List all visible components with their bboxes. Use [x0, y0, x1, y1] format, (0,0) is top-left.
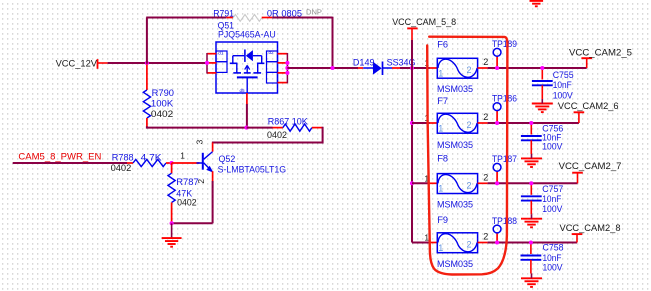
- fuse F7 left pin: [430, 122, 438, 124]
- wire top bypass left segment: [146, 17, 226, 19]
- node junction VCC_CAM_5_8 rail: [410, 66, 414, 70]
- Q51 gate pin stub: [246, 93, 248, 104]
- fuse F8 right pin: [478, 182, 488, 184]
- node junctions Q51 right: [285, 61, 289, 75]
- fuse F7 right pin: [478, 122, 488, 124]
- label TP188: [492, 216, 517, 226]
- value MSM035 of F6: [437, 84, 473, 94]
- pin name 2 inside F6: [467, 65, 472, 75]
- svg-text:2: 2: [467, 120, 472, 130]
- resistor R787 top pin: [171, 163, 173, 173]
- label TP186: [492, 93, 517, 103]
- resistor R867 right pin: [312, 127, 323, 129]
- svg-text:F7: F7: [437, 96, 448, 106]
- Q51 left pin stubs: [207, 54, 216, 73]
- pin name 1 inside F7: [438, 123, 443, 133]
- label TP187: [492, 154, 517, 164]
- svg-text:TP187: TP187: [492, 154, 517, 164]
- svg-text:0402: 0402: [151, 109, 173, 119]
- node junction bypass/output: [330, 66, 334, 70]
- net label VCC_CAM2_5: [569, 46, 632, 57]
- svg-text:1: 1: [180, 151, 185, 161]
- testpoint TP188 circle: [493, 225, 501, 233]
- testpoint TP189 circle: [493, 48, 501, 56]
- fuse F6 right pin: [478, 67, 488, 69]
- value 100V of C755: [553, 90, 574, 100]
- node junction TP187: [495, 181, 499, 185]
- footprint 0402 of R787: [177, 197, 197, 207]
- fuse F8 MSM035 body: [437, 174, 477, 194]
- capacitor C758 10nF: [521, 243, 542, 274]
- wire R867 to Q52 collector: [212, 127, 323, 143]
- power symbol VCC_12V: [98, 59, 108, 69]
- power symbol VCC_CAM2_8: [572, 234, 583, 242]
- wire D149 to fuse rail: [400, 67, 430, 69]
- wire R790 to gate node: [147, 126, 247, 127]
- value 10nF of C756: [542, 133, 561, 143]
- pin number 1 of F9: [424, 233, 429, 243]
- svg-text:d1: d1: [218, 50, 224, 55]
- svg-text:2: 2: [467, 65, 472, 75]
- node junction Q51 left: [205, 61, 209, 65]
- svg-text:0402: 0402: [177, 197, 197, 207]
- svg-text:3: 3: [195, 139, 205, 144]
- pin name 2 inside F9: [467, 240, 472, 250]
- Q51 right pin connector wire: [286, 53, 288, 83]
- wire base of Q52: [172, 162, 200, 164]
- svg-text:R787: R787: [176, 177, 198, 187]
- node junction C756: [529, 121, 533, 125]
- svg-text:MSM035: MSM035: [437, 140, 473, 150]
- svg-text:d5: d5: [240, 88, 246, 93]
- pin name 2 inside F8: [467, 181, 472, 191]
- value SS34G: [387, 57, 416, 67]
- wire Q51 gate down: [246, 104, 248, 128]
- svg-text:1: 1: [438, 68, 443, 78]
- wire emitter to ground node: [172, 222, 213, 224]
- svg-text:TP188: TP188: [492, 216, 517, 226]
- label R867 10K: [268, 116, 309, 126]
- value 0R 0805: [267, 8, 302, 18]
- svg-text:VCC_CAM2_7: VCC_CAM2_7: [559, 160, 622, 171]
- wire F7 output: [488, 122, 579, 124]
- transistor Q51 PJQ5465A-AU body: [216, 42, 278, 93]
- capacitor C757 10nF: [521, 183, 542, 214]
- power symbol VCC_CAM2_7: [572, 173, 583, 184]
- wire fuse feed rail vertical: [411, 40, 413, 243]
- node junction R787/emitter/ground: [170, 221, 174, 225]
- value S-LMBTA05LT1G: [218, 165, 287, 175]
- wire rail to fuse F8: [412, 182, 430, 184]
- Q52 collector pin stub: [212, 143, 214, 152]
- wire Q52 emitter down: [212, 181, 214, 223]
- resistor R790 top pin: [146, 65, 148, 91]
- wire rail to fuse F7: [412, 122, 430, 124]
- svg-text:MSM035: MSM035: [437, 259, 473, 269]
- pin number 1 of F6: [424, 58, 429, 68]
- svg-text:R790: R790: [152, 88, 174, 98]
- testpoint TP186 pin: [496, 111, 498, 123]
- testpoint TP187 circle: [493, 163, 501, 171]
- value 100K: [151, 99, 174, 109]
- svg-text:1: 1: [438, 243, 443, 253]
- capacitor C756 10nF: [521, 123, 542, 154]
- svg-text:1: 1: [438, 184, 443, 194]
- label Q51: [218, 20, 234, 30]
- label F9: [437, 215, 448, 225]
- svg-text:2: 2: [483, 57, 488, 67]
- svg-text:Q52: Q52: [219, 154, 236, 164]
- transistor Q52 S-LMBTA05LT1G body: [197, 152, 214, 173]
- fuse F9 MSM035 body: [437, 233, 477, 253]
- svg-text:VCC_CAM2_5: VCC_CAM2_5: [569, 46, 632, 57]
- wire CAM5_8_PWR_EN: [13, 162, 127, 164]
- svg-text:R791: R791: [213, 8, 234, 18]
- footprint 0402 of R788: [111, 163, 132, 173]
- value 4.7K: [141, 153, 163, 163]
- net label VCC_CAM2_6: [558, 100, 619, 111]
- svg-text:100V: 100V: [542, 204, 563, 214]
- svg-text:10nF: 10nF: [542, 194, 561, 204]
- pin name 1 inside F9: [438, 243, 443, 253]
- value MSM035 of F8: [437, 200, 473, 210]
- resistor R790 body: [143, 90, 150, 118]
- testpoint TP187 pin: [496, 171, 498, 183]
- svg-text:100K: 100K: [151, 99, 174, 109]
- value 10nF of C755: [553, 80, 572, 90]
- svg-text:CAM5_8_PWR_EN: CAM5_8_PWR_EN: [18, 151, 101, 162]
- testpoint TP186 circle: [493, 103, 501, 111]
- label C755: [553, 70, 574, 80]
- power symbol VCC_CAM2_5: [581, 58, 592, 68]
- resistor R788 right pin: [166, 162, 172, 164]
- capacitor C755 10nF: [532, 68, 553, 99]
- node junction C757: [529, 181, 533, 185]
- pin name 1 inside F6: [438, 68, 443, 78]
- svg-text:10nF: 10nF: [543, 253, 562, 263]
- resistor R867 body: [283, 124, 312, 131]
- resistor R788 body: [133, 159, 166, 166]
- svg-text:MSM035: MSM035: [437, 84, 473, 94]
- Q51 left pin connector wire: [206, 53, 208, 74]
- value PJQ5465A-AU: [218, 30, 276, 40]
- value 100V of C757: [542, 204, 563, 214]
- value 47K: [176, 188, 193, 198]
- ground symbol below C756: [521, 154, 542, 167]
- svg-text:C758: C758: [543, 243, 564, 253]
- svg-text:MSM035: MSM035: [437, 200, 473, 210]
- node junction rail row3: [410, 181, 414, 185]
- wire F8 output: [488, 182, 578, 184]
- svg-text:VCC_CAM_5_8: VCC_CAM_5_8: [392, 16, 456, 27]
- wire up-left vertical to R791 bypass: [146, 18, 148, 64]
- testpoint TP188 pin: [496, 233, 498, 243]
- pin number 2 of F7: [483, 112, 488, 122]
- wire rail to fuse F9: [412, 242, 430, 244]
- svg-text:TP186: TP186: [492, 93, 517, 103]
- Q51 right pin stubs: [278, 54, 288, 83]
- wire F6 output: [488, 67, 587, 69]
- label DNP: [306, 7, 322, 16]
- label R788: [112, 153, 134, 163]
- node junction C755: [540, 66, 544, 70]
- resistor R867 left pin: [273, 127, 283, 129]
- value 10nF of C758: [543, 253, 562, 263]
- svg-text:F8: F8: [437, 154, 448, 164]
- svg-text:VCC_12V: VCC_12V: [56, 57, 98, 68]
- svg-text:DNP: DNP: [306, 7, 322, 16]
- net label VCC_CAM2_7: [559, 160, 622, 171]
- power symbol VCC_CAM_5_8: [407, 28, 417, 40]
- pin number 3 of Q52 (rotated): [195, 139, 205, 144]
- node junction gate/R790/R867: [245, 126, 249, 130]
- ground symbol below C758: [521, 274, 542, 287]
- value MSM035 of F7: [437, 140, 473, 150]
- wire bypass down vertical: [332, 17, 334, 68]
- wire VCC_12V to Q51 left pins: [108, 62, 207, 64]
- resistor R791 body (DNP gray): [233, 15, 262, 22]
- node junction TP189: [495, 66, 499, 70]
- pin number 1 of Q52: [180, 151, 185, 161]
- svg-text:2: 2: [483, 232, 488, 242]
- label Q52: [219, 154, 236, 164]
- svg-text:100V: 100V: [543, 263, 564, 273]
- label C758: [543, 243, 564, 253]
- resistor R791 left pin: [226, 17, 233, 19]
- label R791: [213, 8, 234, 18]
- label F7: [437, 96, 448, 106]
- ground symbol below R787: [162, 223, 182, 246]
- svg-text:TP189: TP189: [492, 39, 517, 49]
- pin name 1 inside F8: [438, 184, 443, 194]
- node junction VCC_12V: [145, 61, 149, 65]
- svg-text:2: 2: [467, 181, 472, 191]
- pin number 2 of F8: [483, 173, 488, 183]
- svg-text:1: 1: [438, 123, 443, 133]
- testpoint TP189 pin: [496, 56, 498, 68]
- value 10nF of C757: [542, 194, 561, 204]
- svg-text:2: 2: [483, 173, 488, 183]
- fuse F7 MSM035 body: [437, 113, 477, 133]
- svg-text:d2: d2: [269, 50, 275, 55]
- node junction R788/R787/base: [170, 161, 174, 165]
- wire top bypass right segment: [272, 17, 332, 19]
- label R787: [176, 177, 198, 187]
- wire gate node to R867: [247, 127, 273, 129]
- net label VCC_12V: [56, 57, 98, 68]
- svg-text:C755: C755: [553, 70, 574, 80]
- net label CAM5_8_PWR_EN: [18, 151, 101, 162]
- value 100V of C758: [543, 263, 564, 273]
- svg-text:0402: 0402: [267, 130, 287, 140]
- resistor R787 bottom pin: [171, 203, 173, 224]
- value 100V of C756: [542, 142, 563, 152]
- resistor R787 body: [168, 173, 175, 202]
- node junction TP188: [495, 240, 499, 244]
- power symbol VCC_CAM2_6: [574, 112, 585, 123]
- value MSM035 of F9: [437, 259, 473, 269]
- ground symbol below C755: [532, 99, 553, 112]
- footprint 0402 of R867: [267, 130, 287, 140]
- svg-text:PJQ5465A-AU: PJQ5465A-AU: [218, 30, 276, 40]
- label F8: [437, 154, 448, 164]
- footprint 0402 of R790: [151, 109, 173, 119]
- net label VCC_CAM_5_8: [392, 16, 456, 27]
- svg-text:R788: R788: [112, 153, 134, 163]
- svg-text:F6: F6: [437, 39, 448, 49]
- pin number 1 of F8: [424, 174, 429, 184]
- resistor R791 right pin: [262, 17, 273, 19]
- label C757: [542, 184, 563, 194]
- diode D149 SS34G: [358, 62, 400, 76]
- label F6: [437, 39, 448, 49]
- pin number 1 of F7: [424, 113, 429, 123]
- pin number 2 of Q52 (rotated): [196, 179, 206, 184]
- fuse F9 left pin: [430, 242, 438, 244]
- net label VCC_CAM2_8: [560, 222, 621, 233]
- svg-text:D149: D149: [353, 57, 375, 67]
- ground symbol top edge (partial): [530, 1, 544, 6]
- node junction C758: [529, 240, 533, 244]
- svg-text:10nF: 10nF: [553, 80, 572, 90]
- wire F9 output: [488, 242, 577, 244]
- Q52 emitter pin stub: [212, 171, 214, 181]
- annotation red oval around fuses: [427, 37, 507, 275]
- svg-text:2: 2: [483, 112, 488, 122]
- resistor R790 bottom pin: [146, 118, 148, 127]
- fuse F8 left pin: [430, 182, 438, 184]
- svg-text:2: 2: [467, 240, 472, 250]
- node junction TP186: [495, 121, 499, 125]
- svg-text:F9: F9: [437, 215, 448, 225]
- node junction rail row2: [410, 121, 414, 125]
- pin number 2 of F6: [483, 57, 488, 67]
- svg-text:100V: 100V: [542, 142, 563, 152]
- svg-text:100V: 100V: [553, 90, 574, 100]
- wire Q51 output to D149: [287, 67, 358, 69]
- svg-text:VCC_CAM2_6: VCC_CAM2_6: [558, 100, 619, 111]
- svg-text:R867 10K: R867 10K: [268, 116, 309, 126]
- svg-text:S-LMBTA05LT1G: S-LMBTA05LT1G: [218, 165, 287, 175]
- fuse F9 right pin: [478, 242, 488, 244]
- fuse F6 left pin: [430, 67, 438, 69]
- pin number 2 of F9: [483, 232, 488, 242]
- fuse F6 MSM035 body: [437, 58, 477, 78]
- label C756: [542, 123, 563, 133]
- svg-text:C757: C757: [542, 184, 563, 194]
- svg-text:4.7K: 4.7K: [141, 153, 163, 163]
- resistor R788 left pin: [127, 162, 133, 164]
- svg-text:0402: 0402: [111, 163, 132, 173]
- label D149: [353, 57, 375, 67]
- pin name 2 inside F7: [467, 120, 472, 130]
- svg-text:VCC_CAM2_8: VCC_CAM2_8: [560, 222, 621, 233]
- label TP189: [492, 39, 517, 49]
- label R790: [152, 88, 174, 98]
- ground symbol below C757: [521, 214, 542, 227]
